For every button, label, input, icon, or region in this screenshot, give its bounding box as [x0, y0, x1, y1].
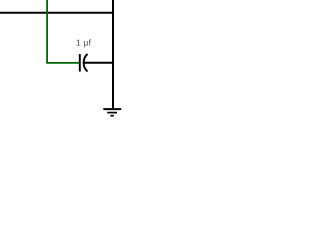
svg-text:1 µf: 1 µf	[76, 37, 92, 47]
capacitor C1 left straight plate	[79, 54, 81, 72]
ground	[103, 109, 121, 116]
wire: black segment from capacitor C1 curved plate to right vertical net	[84, 62, 113, 64]
wire: top horizontal black net from left edge to node A	[0, 12, 114, 14]
capacitor C1 right curved plate	[84, 54, 88, 72]
wire: green vertical segment from top edge down to corner	[46, 0, 48, 63]
wire: right vertical black net from top edge through node A down to ground	[112, 0, 114, 108]
wire: green horizontal segment from corner to capacitor C1 left plate	[46, 62, 79, 64]
